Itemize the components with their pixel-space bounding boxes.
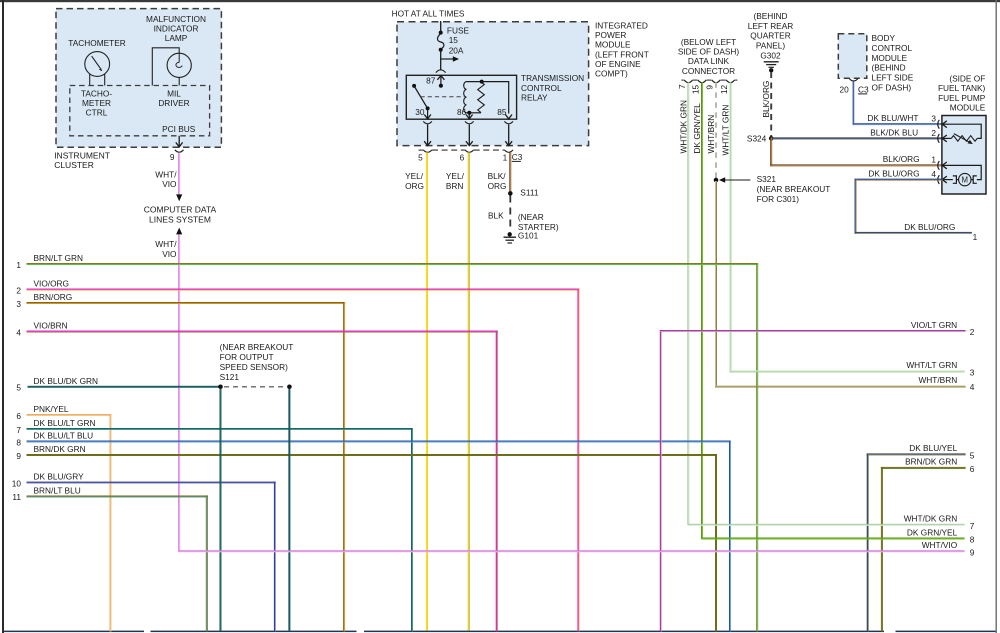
- svg-text:9: 9: [705, 85, 715, 90]
- body control module box: [838, 34, 867, 78]
- svg-text:DK BLU/GRY: DK BLU/GRY: [34, 472, 85, 482]
- label MIL DRIVER: [158, 88, 189, 108]
- svg-text:6: 6: [970, 464, 975, 474]
- label WHT/VIO upper: [155, 169, 177, 189]
- svg-text:COMPUTER DATA: COMPUTER DATA: [144, 205, 217, 215]
- wire DK BLU/WHT from BCM pin 20 to fuel pump pin 3: [853, 82, 943, 126]
- svg-text:(NEAR: (NEAR: [518, 212, 544, 222]
- label INSTRUMENT CLUSTER: [54, 150, 110, 170]
- svg-text:BRN/DK GRN: BRN/DK GRN: [905, 457, 957, 467]
- svg-text:DRIVER: DRIVER: [158, 98, 189, 108]
- svg-text:2: 2: [970, 327, 975, 337]
- svg-text:FUEL TANK): FUEL TANK): [938, 83, 986, 93]
- svg-text:15: 15: [691, 84, 701, 94]
- splice S111: [508, 191, 513, 196]
- label MALFUNCTION INDICATOR LAMP: [146, 14, 206, 43]
- data link connector arcs: [684, 80, 735, 83]
- svg-text:5: 5: [418, 152, 423, 162]
- svg-text:WHT/LT GRN: WHT/LT GRN: [721, 105, 731, 156]
- svg-text:3: 3: [970, 367, 975, 377]
- svg-text:ORG: ORG: [488, 181, 507, 191]
- svg-text:(BELOW LEFT: (BELOW LEFT: [681, 37, 736, 47]
- fuel pump pin 1 connector arc and barbed arrow: [938, 161, 949, 170]
- fuel pump motor symbol: [953, 173, 977, 185]
- relay pin 86 barbed arrow: [466, 115, 473, 119]
- wire BRN/ORG row 3: [27, 302, 346, 632]
- svg-text:FOR C301): FOR C301): [757, 194, 800, 204]
- wire WHT/DK GRN from DLC pin 7: [687, 82, 689, 524]
- label (NEAR BREAKOUT FOR OUTPUT SPEED SENSOR) S121: [220, 342, 294, 382]
- fuel level sender variable resistor: [951, 134, 977, 145]
- svg-text:3: 3: [931, 114, 936, 124]
- fuel pump pin 3 connector arc and barbed arrow: [938, 120, 949, 129]
- wire DK GRN/YEL right row 8: [701, 538, 965, 540]
- branch arrow to other circuits: [441, 58, 454, 60]
- svg-text:S111: S111: [520, 188, 539, 198]
- svg-text:FUSE: FUSE: [447, 25, 470, 35]
- page left border: [2, 0, 4, 633]
- wire BRN/DK GRN right row 6: [881, 467, 966, 632]
- svg-text:4: 4: [931, 169, 936, 179]
- fuel pump internal wire pin 1 to motor: [949, 165, 981, 179]
- svg-text:YEL/: YEL/: [446, 171, 465, 181]
- svg-text:5: 5: [16, 383, 21, 393]
- arrow out of computer data lines system: [176, 228, 182, 235]
- svg-text:30: 30: [415, 107, 425, 117]
- svg-text:1: 1: [503, 152, 508, 162]
- relay coil bottom junction to pin 86: [467, 113, 482, 119]
- label BLK/ORG: [488, 171, 507, 191]
- fuel pump pin 2 connector arc and barbed arrow: [938, 134, 952, 143]
- arrow into computer data lines system: [176, 194, 182, 201]
- svg-text:VIO/BRN: VIO/BRN: [34, 321, 68, 331]
- svg-text:DK BLU/WHT: DK BLU/WHT: [867, 113, 918, 123]
- svg-text:LINES SYSTEM: LINES SYSTEM: [149, 214, 211, 224]
- svg-text:C3: C3: [512, 152, 523, 162]
- data link connector tie segments: [681, 79, 737, 81]
- arrow pointing to S321: [722, 179, 750, 181]
- svg-text:SIDE OF DASH): SIDE OF DASH): [678, 47, 740, 57]
- svg-text:3: 3: [16, 299, 21, 309]
- svg-text:CONNECTOR: CONNECTOR: [682, 66, 735, 76]
- wire WHT/BRN from S321 to right row 4: [715, 181, 966, 388]
- svg-text:2: 2: [931, 128, 936, 138]
- svg-text:86: 86: [457, 107, 467, 117]
- svg-text:DK BLU/DK GRN: DK BLU/DK GRN: [34, 376, 99, 386]
- svg-text:CONTROL: CONTROL: [521, 83, 562, 93]
- svg-text:CTRL: CTRL: [86, 108, 108, 118]
- svg-text:6: 6: [16, 411, 21, 421]
- svg-text:87: 87: [426, 76, 436, 86]
- svg-text:11: 11: [12, 492, 21, 502]
- ground G302 symbol: [764, 62, 779, 68]
- svg-text:BRN/LT GRN: BRN/LT GRN: [34, 253, 83, 263]
- svg-text:YEL/: YEL/: [405, 171, 424, 181]
- svg-text:(BEHIND: (BEHIND: [872, 63, 906, 73]
- svg-text:VIO/ORG: VIO/ORG: [34, 279, 70, 289]
- wire YEL/ORG from relay pin 30: [426, 152, 428, 630]
- wire VIO/LT GRN right row 2: [660, 330, 966, 632]
- instrument cluster pin 9 lead with barbed arrow: [178, 136, 180, 147]
- svg-text:LEFT REAR: LEFT REAR: [748, 21, 794, 31]
- splice S324: [769, 136, 774, 141]
- wire WHT/LT GRN right row 3: [729, 370, 964, 372]
- svg-text:COMPT): COMPT): [595, 69, 628, 79]
- svg-text:ORG: ORG: [405, 181, 424, 191]
- svg-text:WHT/VIO: WHT/VIO: [922, 540, 958, 550]
- svg-text:6: 6: [460, 152, 465, 162]
- svg-text:DK BLU/YEL: DK BLU/YEL: [909, 443, 957, 453]
- wire BLK/ORG from relay pin 85 to S111: [509, 152, 511, 193]
- svg-text:M: M: [962, 176, 969, 185]
- svg-text:VIO/LT GRN: VIO/LT GRN: [911, 320, 957, 330]
- svg-text:CONTROL: CONTROL: [872, 43, 913, 53]
- wire BLK/ORG from S324 to fuel pump pin 1: [770, 137, 943, 166]
- svg-text:G302: G302: [760, 51, 781, 61]
- splice S121 left dot: [218, 385, 223, 390]
- relay coil top wire to pin 85: [467, 82, 509, 114]
- svg-text:RELAY: RELAY: [521, 93, 548, 103]
- svg-text:BODY: BODY: [872, 33, 896, 43]
- svg-text:WHT/DK GRN: WHT/DK GRN: [904, 514, 957, 524]
- svg-text:WHT/BRN: WHT/BRN: [706, 115, 716, 154]
- svg-text:PNK/YEL: PNK/YEL: [34, 404, 69, 414]
- svg-text:9: 9: [16, 451, 21, 461]
- svg-text:FOR OUTPUT: FOR OUTPUT: [220, 352, 274, 362]
- page right border: [996, 0, 997, 633]
- connector C3 dashed tie line: [419, 149, 505, 151]
- svg-text:DK BLU/ORG: DK BLU/ORG: [904, 222, 955, 232]
- label (BEHIND LEFT REAR QUARTER PANEL) G302: [748, 11, 794, 61]
- wire DK BLU/GRY row 10: [27, 482, 276, 632]
- svg-text:MIL: MIL: [167, 88, 181, 98]
- relay pin 87 barbed arrow and lead: [437, 76, 444, 88]
- svg-text:QUARTER: QUARTER: [750, 31, 790, 41]
- label WHT/VIO lower: [155, 239, 177, 259]
- label TRANSMISSION CONTROL RELAY: [521, 73, 584, 102]
- barbed arrows at module edge: [424, 141, 512, 146]
- wire DK BLU/DK GRN row 5: [28, 386, 221, 388]
- svg-text:C3: C3: [858, 84, 869, 94]
- svg-text:DK GRN/YEL: DK GRN/YEL: [907, 527, 958, 537]
- svg-text:MALFUNCTION: MALFUNCTION: [146, 14, 206, 24]
- splice S321: [714, 178, 719, 183]
- relay pin 30 lead and barbed arrow: [427, 108, 429, 118]
- node COMPUTER DATA LINES SYSTEM: [144, 205, 217, 225]
- svg-text:(LEFT FRONT: (LEFT FRONT: [595, 49, 649, 59]
- svg-text:20: 20: [839, 84, 849, 94]
- svg-text:MODULE: MODULE: [872, 53, 908, 63]
- svg-text:8: 8: [16, 437, 21, 447]
- wire BRN/DK GRN row 9: [27, 454, 718, 632]
- svg-text:PCI BUS: PCI BUS: [162, 124, 196, 134]
- connector C3 label: [512, 152, 523, 162]
- label S321 (NEAR BREAKOUT FOR C301): [757, 174, 831, 204]
- relay pin 85 barbed arrow: [505, 115, 512, 119]
- BCM pin 20 connector arc: [849, 79, 858, 81]
- wire WHT/VIO from instrument cluster pin 9: [178, 153, 180, 194]
- wire BLK/ORG dashed from G302 to S324: [770, 72, 772, 137]
- svg-text:15: 15: [449, 35, 459, 45]
- svg-text:BRN: BRN: [446, 181, 464, 191]
- svg-text:20A: 20A: [449, 46, 464, 56]
- wire DK BLU/LT BLU row 8: [27, 441, 732, 632]
- svg-text:DK BLU/LT BLU: DK BLU/LT BLU: [34, 431, 94, 441]
- wire WHT/VIO right row 9: [178, 550, 964, 552]
- tachometer gauge symbol: [85, 52, 110, 86]
- svg-text:TACHOMETER: TACHOMETER: [68, 38, 125, 48]
- svg-text:MODULE: MODULE: [950, 103, 986, 113]
- svg-text:1: 1: [973, 232, 978, 242]
- splice S121 right dot: [287, 385, 292, 390]
- svg-text:1: 1: [16, 260, 21, 270]
- relay coil parallel resistor: [478, 82, 485, 113]
- svg-text:WHT/DK GRN: WHT/DK GRN: [679, 100, 689, 153]
- wire BLK from S111 to G101: [509, 196, 511, 232]
- svg-text:POWER: POWER: [595, 30, 626, 40]
- svg-text:DATA LINK: DATA LINK: [688, 56, 730, 66]
- relay switch 30-87: [412, 84, 430, 111]
- relay armature dashed link: [421, 96, 465, 98]
- svg-text:SPEED SENSOR): SPEED SENSOR): [220, 362, 288, 372]
- svg-text:LAMP: LAMP: [165, 33, 188, 43]
- connector arc at pin 9: [175, 150, 184, 152]
- svg-text:METER: METER: [82, 98, 111, 108]
- svg-text:1: 1: [931, 154, 936, 164]
- svg-text:VIO: VIO: [162, 179, 177, 189]
- wire BRN/LT BLU row 11: [27, 495, 208, 631]
- wire DK BLU/YEL right row 5: [867, 453, 966, 631]
- fuse 15 20A symbol: [437, 31, 443, 52]
- fuel pump pin 4 connector arc and barbed arrow: [938, 175, 953, 184]
- wire WHT/LT GRN from DLC pin 12: [729, 82, 731, 371]
- ground G101: [504, 232, 517, 243]
- svg-text:DK BLU/ORG: DK BLU/ORG: [868, 169, 919, 179]
- svg-text:INSTRUMENT: INSTRUMENT: [54, 150, 110, 160]
- label YEL/ORG: [405, 171, 424, 191]
- svg-text:2: 2: [16, 285, 21, 295]
- wire DK BLU/LT GRN row 7: [27, 428, 414, 632]
- wire WHT/BRN dashed from DLC pin 9 to S321: [715, 82, 717, 178]
- svg-text:MODULE: MODULE: [595, 40, 631, 50]
- relay output connector arcs: [423, 121, 513, 123]
- svg-text:4: 4: [970, 382, 975, 392]
- svg-text:OF DASH): OF DASH): [872, 83, 912, 93]
- wire fuse to relay pin 87: [440, 50, 442, 71]
- wire DK BLU/DK GRN from S121 right dot down: [288, 389, 290, 630]
- label (NEAR STARTER): [518, 212, 559, 232]
- svg-text:BLK/DK BLU: BLK/DK BLU: [870, 127, 918, 137]
- svg-text:BRN/LT BLU: BRN/LT BLU: [34, 486, 81, 496]
- wire VIO/ORG row 2: [27, 289, 580, 632]
- label TACHO-METER CTRL: [81, 88, 112, 117]
- svg-text:LEFT SIDE: LEFT SIDE: [872, 73, 914, 83]
- svg-text:WHT/: WHT/: [155, 169, 177, 179]
- svg-text:DK GRN/YEL: DK GRN/YEL: [692, 103, 702, 154]
- svg-text:G101: G101: [518, 230, 539, 240]
- svg-text:(BEHIND: (BEHIND: [753, 11, 787, 21]
- wire DK BLU/ORG from fuel pump pin 4: [855, 179, 972, 234]
- svg-text:(SIDE OF: (SIDE OF: [949, 74, 985, 84]
- svg-text:BRN/ORG: BRN/ORG: [34, 292, 73, 302]
- wire VIO/BRN row 4: [27, 331, 498, 632]
- svg-text:10: 10: [12, 478, 22, 488]
- label YEL/BRN: [446, 171, 465, 191]
- fuel pump internal wire pin 3 to sender: [949, 124, 981, 138]
- label INTEGRATED POWER MODULE (LEFT FRONT OF ENGINE COMPT): [595, 21, 649, 79]
- instrument cluster inner module box: [70, 86, 210, 136]
- svg-text:7: 7: [677, 84, 687, 89]
- relay coil winding: [464, 82, 467, 113]
- MIL lamp symbol: [152, 48, 191, 86]
- svg-text:DK BLU/LT GRN: DK BLU/LT GRN: [34, 418, 96, 428]
- svg-text:TRANSMISSION: TRANSMISSION: [521, 73, 584, 83]
- splice S121 dashed link: [224, 386, 286, 388]
- svg-text:5: 5: [970, 451, 975, 461]
- svg-text:(NEAR BREAKOUT: (NEAR BREAKOUT: [220, 342, 294, 352]
- svg-text:8: 8: [970, 535, 975, 545]
- relay pin 87 connector arc: [436, 70, 446, 73]
- instrument cluster box: [56, 9, 221, 148]
- page top border: [0, 0, 1000, 2]
- svg-text:OF ENGINE: OF ENGINE: [595, 59, 641, 69]
- wire WHT/DK GRN right row 7: [687, 524, 964, 526]
- svg-text:CLUSTER: CLUSTER: [54, 160, 94, 170]
- wire BRN/LT GRN row 1: [27, 263, 759, 632]
- wire PNK/YEL row 6: [27, 414, 112, 632]
- wire YEL/BRN from relay pin 86: [468, 152, 470, 630]
- relay output leads to module edge: [428, 124, 509, 145]
- svg-text:(NEAR BREAKOUT: (NEAR BREAKOUT: [757, 184, 831, 194]
- svg-text:BLK/ORG: BLK/ORG: [883, 154, 920, 164]
- svg-text:INTEGRATED: INTEGRATED: [595, 21, 648, 31]
- svg-text:9: 9: [970, 548, 975, 558]
- svg-text:WHT/BRN: WHT/BRN: [918, 375, 957, 385]
- svg-text:INDICATOR: INDICATOR: [154, 23, 199, 33]
- wire WHT/VIO down to right row 9 corner: [178, 235, 180, 552]
- svg-text:VIO: VIO: [162, 249, 177, 259]
- svg-text:HOT AT ALL TIMES: HOT AT ALL TIMES: [392, 8, 465, 18]
- svg-text:BLK/ORG: BLK/ORG: [761, 81, 771, 118]
- svg-text:7: 7: [970, 521, 975, 531]
- fuel pump module box: [942, 116, 986, 195]
- wire DK GRN/YEL from DLC pin 15: [701, 82, 703, 538]
- svg-text:BLK/: BLK/: [488, 171, 507, 181]
- svg-text:9: 9: [170, 152, 175, 162]
- transmission control relay box: [406, 75, 516, 119]
- svg-text:S121: S121: [220, 372, 240, 382]
- wire BLK/DK BLU from S324 to fuel pump pin 2: [771, 137, 942, 139]
- wire from box top to fuse: [440, 21, 442, 33]
- svg-text:S324: S324: [747, 134, 767, 144]
- page bottom border (cut line with gaps): [4, 631, 996, 633]
- svg-text:12: 12: [719, 84, 729, 94]
- svg-text:TACHO-: TACHO-: [81, 88, 112, 98]
- label (SIDE OF FUEL TANK) FUEL PUMP MODULE: [938, 74, 986, 113]
- connector C3 arcs below module: [423, 150, 513, 152]
- label BODY CONTROL MODULE (BEHIND LEFT SIDE OF DASH): [872, 33, 914, 93]
- svg-text:WHT/: WHT/: [155, 239, 177, 249]
- label (BELOW LEFT SIDE OF DASH) DATA LINK CONNECTOR: [678, 37, 740, 76]
- fuse label FUSE 15 20A: [447, 25, 470, 55]
- svg-text:4: 4: [16, 327, 21, 337]
- BCM connector C3 label: [858, 84, 869, 94]
- svg-text:BLK: BLK: [488, 211, 504, 221]
- integrated power module box: [397, 22, 589, 146]
- svg-text:WHT/LT GRN: WHT/LT GRN: [906, 360, 957, 370]
- wire DK BLU/DK GRN from S121 left dot down: [220, 389, 222, 630]
- svg-text:PANEL): PANEL): [756, 41, 786, 51]
- svg-text:BRN/DK GRN: BRN/DK GRN: [34, 444, 86, 454]
- svg-text:FUEL PUMP: FUEL PUMP: [938, 93, 986, 103]
- svg-text:S321: S321: [757, 174, 777, 184]
- svg-text:7: 7: [16, 425, 21, 435]
